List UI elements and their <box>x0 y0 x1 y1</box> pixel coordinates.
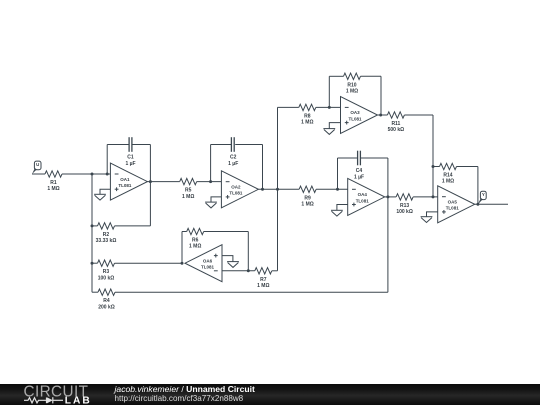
node OA6 output <box>181 262 184 265</box>
svg-text:Y: Y <box>482 192 485 197</box>
wire OA1 output to R5 <box>147 181 179 183</box>
svg-text:100 kΩ: 100 kΩ <box>396 209 413 215</box>
wire R3 to OA6 output <box>115 262 183 264</box>
wire OA2 non-inverting stub <box>211 197 221 202</box>
node R14 tap <box>432 165 435 168</box>
wire C1 top left <box>107 144 128 146</box>
wire C2 left vertical <box>210 145 212 182</box>
svg-text:U: U <box>36 162 39 167</box>
op-amp OA5 <box>438 186 475 223</box>
node OA5 output <box>476 203 479 206</box>
wire input to R1 <box>32 173 45 175</box>
node R2 tap <box>91 224 94 227</box>
wire R11 to right riser <box>404 114 433 116</box>
svg-text:TL081: TL081 <box>118 183 132 188</box>
ground at OA2 <box>205 201 217 203</box>
op-amp OA4 <box>348 178 385 215</box>
svg-text:R3: R3 <box>103 269 110 275</box>
wire R2 row left <box>92 225 98 227</box>
svg-text:R2: R2 <box>103 232 110 238</box>
wire R10 left vertical <box>328 76 330 107</box>
wire C2 right vertical <box>262 145 264 190</box>
wire R5 to OA2 inverting input <box>197 181 222 183</box>
node R3 tap <box>91 262 94 265</box>
wire C4 right vertical / R4 riser <box>387 158 389 292</box>
svg-text:TL081: TL081 <box>356 198 370 203</box>
svg-text:OA4: OA4 <box>358 192 368 197</box>
svg-text:OA2: OA2 <box>231 185 241 190</box>
resistor R2 <box>98 223 115 229</box>
svg-text:R9: R9 <box>304 195 311 201</box>
svg-text:TL081: TL081 <box>446 206 460 211</box>
resistor R1 <box>45 171 62 177</box>
footer bar <box>0 384 540 405</box>
svg-text:1 MΩ: 1 MΩ <box>189 244 201 250</box>
wire R14 row right <box>457 166 478 168</box>
svg-text:1 MΩ: 1 MΩ <box>182 194 194 200</box>
resistor R3 <box>98 260 115 266</box>
svg-text:1 µF: 1 µF <box>125 161 135 167</box>
resistor R4 <box>98 289 115 295</box>
wire C2 top left <box>211 144 232 146</box>
wire OA5 output <box>475 203 508 205</box>
wire R7 to node X riser <box>272 270 278 272</box>
svg-text:R4: R4 <box>103 298 110 304</box>
svg-text:1 MΩ: 1 MΩ <box>301 202 313 208</box>
svg-text:R5: R5 <box>185 188 192 194</box>
wire R4 row left <box>92 291 98 293</box>
wire C1 right vertical / R2 riser <box>149 145 151 226</box>
wire R10 row right <box>361 75 382 77</box>
wire R2 row right <box>115 225 151 227</box>
node R10 feedback junction <box>328 106 331 109</box>
node C2 feedback junction <box>209 180 212 183</box>
wire R14 row left <box>433 166 440 168</box>
svg-text:100 kΩ: 100 kΩ <box>98 275 115 281</box>
wire R6 left vertical <box>181 232 183 264</box>
svg-text:TL081: TL081 <box>348 116 362 121</box>
svg-text:R7: R7 <box>260 277 267 283</box>
wire R6 row right <box>204 231 249 233</box>
wire R10 right vertical <box>380 76 382 115</box>
svg-text:OA5: OA5 <box>448 200 458 205</box>
svg-text:1 MΩ: 1 MΩ <box>47 186 59 192</box>
node R13 riser junction <box>432 195 435 198</box>
wire OA2 output to R9 <box>258 188 299 190</box>
resistor R7 <box>255 268 272 274</box>
svg-text:200 kΩ: 200 kΩ <box>98 304 115 310</box>
ground at OA6 <box>227 261 239 263</box>
wire C1 left vertical <box>106 145 108 175</box>
node OA4 output <box>386 195 389 198</box>
CircuitLab logo <box>0 384 110 405</box>
resistor R14 <box>440 163 457 169</box>
wire R10 row left <box>329 75 343 77</box>
node input rail junction <box>91 173 94 176</box>
wire R8 to OA3 inverting input <box>316 106 341 108</box>
wire R9 to OA4 inverting input <box>316 188 348 190</box>
wire C2 top right <box>235 144 262 146</box>
wire R13 to OA5 inverting input <box>413 196 438 198</box>
ground at OA1 <box>94 193 106 195</box>
node X distribution junction <box>276 188 279 191</box>
wire OA3 non-inverting stub <box>329 123 340 129</box>
wire OA5 non-inverting stub <box>427 212 438 217</box>
svg-text:500 kΩ: 500 kΩ <box>388 127 405 133</box>
wire OA3 output to R11 <box>378 114 388 116</box>
ground at OA5 <box>421 216 433 218</box>
op-amp OA6 <box>185 245 222 282</box>
wire R8 row from node X <box>278 106 299 108</box>
op-amp OA1 <box>110 163 147 200</box>
svg-text:R1: R1 <box>50 180 57 186</box>
wire C1 top right <box>133 144 151 146</box>
svg-text:1 MΩ: 1 MΩ <box>301 120 313 126</box>
svg-text:C2: C2 <box>230 155 237 161</box>
node C4 feedback junction <box>336 188 339 191</box>
svg-text:R6: R6 <box>192 238 199 244</box>
svg-text:TL081: TL081 <box>229 191 243 196</box>
wire OA6 non-inverting stub <box>222 256 233 262</box>
wire node X vertical <box>277 107 279 270</box>
svg-text:OA3: OA3 <box>350 110 360 115</box>
wire R3 row left <box>92 262 98 264</box>
resistor R6 <box>187 228 204 234</box>
wire OA6 inverting input <box>222 270 255 272</box>
resistor R5 <box>180 178 197 184</box>
resistor R8 <box>299 104 316 110</box>
footer credit text <box>115 385 255 404</box>
node OA3 output <box>379 114 382 117</box>
resistor R13 <box>396 194 413 200</box>
resistor R10 <box>344 73 361 79</box>
svg-text:TL081: TL081 <box>201 265 215 270</box>
wire OA4 output to R13 <box>385 196 396 198</box>
svg-text:R11: R11 <box>391 121 400 127</box>
wire C4 left vertical <box>337 158 339 189</box>
op-amp OA3 <box>341 97 378 134</box>
node OA1 output <box>149 180 152 183</box>
svg-text:33.33 kΩ: 33.33 kΩ <box>96 238 117 244</box>
output flag Y <box>480 191 486 199</box>
node OA6 inverting junction <box>247 269 250 272</box>
wire R6 row left <box>182 231 187 233</box>
svg-text:R10: R10 <box>347 82 356 88</box>
wire C4 top left <box>338 157 358 159</box>
resistor R9 <box>299 186 316 192</box>
ground at OA3 <box>323 128 335 130</box>
capacitor C4 <box>357 151 359 166</box>
svg-text:C4: C4 <box>356 168 363 174</box>
svg-text:1 MΩ: 1 MΩ <box>257 283 269 289</box>
ground at OA4 <box>331 209 343 211</box>
wire OA1 non-inverting stub <box>100 189 110 194</box>
wire OA4 non-inverting stub <box>337 205 348 211</box>
svg-text:1 µF: 1 µF <box>228 161 238 167</box>
svg-text:1 MΩ: 1 MΩ <box>442 179 454 185</box>
wire left rail vertical <box>91 174 93 292</box>
wire R1 to OA1 inverting input <box>62 173 110 175</box>
wire R6 right vertical <box>247 232 249 271</box>
svg-text:OA1: OA1 <box>120 177 130 182</box>
wire R4 row right <box>115 291 388 293</box>
input flag U <box>34 161 41 170</box>
svg-text:LAB: LAB <box>65 395 92 405</box>
capacitor C1 <box>128 137 130 152</box>
svg-text:R13: R13 <box>400 203 409 209</box>
svg-text:C1: C1 <box>127 155 134 161</box>
svg-text:OA6: OA6 <box>203 258 213 263</box>
capacitor C2 <box>230 137 232 152</box>
node OA2 output <box>261 188 264 191</box>
node C1 feedback junction <box>106 173 109 176</box>
svg-text:R8: R8 <box>304 113 311 119</box>
svg-text:R14: R14 <box>443 173 452 179</box>
wire right riser vertical <box>432 115 434 197</box>
svg-text:1 µF: 1 µF <box>354 175 364 181</box>
wire R14 right vertical <box>477 167 479 205</box>
op-amp OA2 <box>221 171 258 208</box>
svg-text:1 MΩ: 1 MΩ <box>346 89 358 95</box>
resistor R11 <box>387 112 404 118</box>
wire C4 top right <box>361 157 388 159</box>
